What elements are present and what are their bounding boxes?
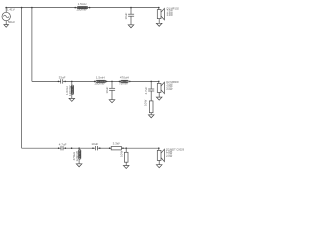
capacitor C2 (series): [58, 79, 66, 83]
wire bottom row 3: [97, 147, 111, 149]
svg-text:120mW: 120mW: [75, 151, 79, 162]
wire mid row 2: [63, 80, 96, 82]
node bottom shunt L5: [78, 147, 80, 149]
resistor R3 (shunt): [124, 148, 128, 165]
ground (D3): [156, 165, 162, 168]
svg-text:75mW: 75mW: [119, 82, 128, 86]
ground (L5): [76, 164, 82, 167]
svg-text:10uF: 10uF: [91, 142, 98, 146]
svg-text:10W: 10W: [143, 100, 147, 106]
capacitor C1 (shunt): [128, 7, 134, 25]
svg-text:4.7uF: 4.7uF: [144, 87, 148, 95]
node bottom segment: [71, 147, 73, 149]
ground (D1): [156, 23, 162, 26]
inductor L1: [74, 6, 90, 8]
ground (C3): [109, 100, 115, 103]
wire bottom row 4: [121, 147, 158, 149]
AC source V1: [2, 8, 10, 25]
ground (source): [4, 25, 9, 28]
svg-text:3.3W: 3.3W: [113, 141, 120, 145]
wire R2 to ground: [150, 113, 152, 115]
svg-text:2.0W: 2.0W: [166, 87, 173, 91]
wire bottom row left: [22, 147, 61, 149]
svg-text:1.5mH: 1.5mH: [96, 75, 105, 79]
node source corner: [5, 7, 7, 9]
svg-text:33uF: 33uF: [59, 76, 66, 80]
wire tap A vertical: [21, 8, 23, 149]
svg-text:1.41V: 1.41V: [7, 8, 15, 12]
ground (D2): [156, 97, 162, 100]
svg-text:10uF: 10uF: [124, 12, 128, 19]
capacitor C6 (series): [92, 146, 100, 150]
ground (R3): [123, 166, 129, 169]
wire bottom row 2: [63, 147, 95, 149]
svg-text:2.0W: 2.0W: [166, 154, 173, 158]
capacitor C3 (shunt): [109, 81, 115, 100]
wire mid row 4: [130, 80, 159, 82]
svg-text:10uF: 10uF: [105, 86, 109, 93]
svg-text:10W: 10W: [120, 151, 124, 157]
inductor L2 (shunt): [71, 81, 73, 98]
svg-text:150mW: 150mW: [76, 8, 87, 12]
node tap A: [21, 7, 23, 9]
inductor L5 (shunt): [79, 148, 81, 164]
node tap B: [31, 7, 33, 9]
inductor L4: [119, 80, 131, 82]
wire mid row 3: [105, 80, 121, 82]
speaker D3: [157, 147, 164, 164]
resistor R2 (RC shunt): [149, 101, 153, 113]
inductor L3: [94, 80, 108, 82]
svg-text:470uH: 470uH: [120, 75, 129, 79]
svg-text:50Hz: 50Hz: [8, 20, 16, 24]
speaker D1: [157, 7, 164, 24]
node mid shunt L2: [71, 81, 73, 83]
speaker D2: [157, 81, 164, 98]
wire top rail: [6, 7, 159, 9]
svg-text:1.5mH: 1.5mH: [78, 2, 87, 6]
ground (R2): [148, 115, 154, 118]
svg-text:120mW: 120mW: [68, 85, 72, 96]
svg-text:150mW: 150mW: [94, 82, 105, 86]
svg-text:4.7uF: 4.7uF: [59, 142, 67, 146]
node mid RC: [150, 81, 152, 83]
node bottom shunt R3: [125, 147, 127, 149]
capacitor C4 (series): [58, 146, 66, 150]
ground (C1): [128, 25, 134, 28]
wire tap B vertical: [31, 8, 33, 82]
wire mid row left: [32, 80, 61, 82]
resistor R1 (series): [109, 147, 124, 150]
ground (L2): [69, 98, 75, 101]
svg-text:2.0W: 2.0W: [167, 13, 174, 17]
capacitor C5 (RC shunt): [148, 81, 154, 101]
